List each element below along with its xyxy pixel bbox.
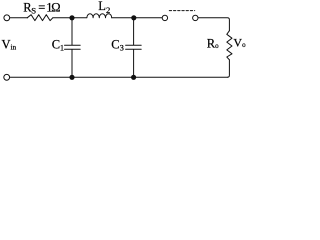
- svg-text:Vo: Vo: [233, 36, 246, 50]
- bottom rail wire: [10, 76, 228, 78]
- wire to top-right corner and down: [198, 18, 229, 31]
- wire top-left to resistor: [10, 17, 28, 19]
- resistor RS: [27, 15, 53, 21]
- dashed continuation line: [169, 10, 194, 12]
- node junction dot bottom C1: [69, 75, 74, 80]
- node junction dot bottom C3: [131, 75, 136, 80]
- capacitor C3: [126, 18, 142, 78]
- svg-text:Ω: Ω: [51, 0, 60, 14]
- input terminal circle bottom-left: [4, 74, 10, 80]
- wire resistor to inductor: [53, 17, 87, 19]
- wire Ro to bottom-right corner: [227, 60, 229, 78]
- svg-text:L2: L2: [98, 0, 110, 15]
- terminal circle mid-left: [162, 15, 167, 20]
- node junction dot top C3: [131, 15, 136, 20]
- svg-text:C1: C1: [52, 38, 64, 53]
- terminal circle mid-right: [193, 15, 198, 20]
- svg-text:Vin: Vin: [2, 37, 17, 51]
- capacitor C1: [65, 18, 81, 78]
- svg-text:C3: C3: [111, 37, 124, 52]
- input terminal circle top-left: [4, 15, 10, 21]
- node junction dot top C1: [69, 15, 74, 20]
- inductor L2: [87, 14, 112, 18]
- svg-text:=: =: [38, 0, 45, 14]
- wire inductor to terminal circle: [112, 17, 162, 19]
- svg-text:S: S: [31, 6, 36, 16]
- svg-text:Ro: Ro: [207, 36, 219, 50]
- resistor Ro vertical: [227, 31, 232, 60]
